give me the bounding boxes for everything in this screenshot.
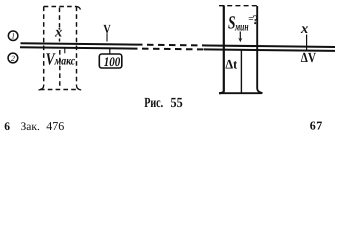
svg-text:ΔV: ΔV — [301, 51, 316, 66]
svg-text:мин: мин — [234, 19, 248, 33]
svg-text:Зак.: Зак. — [21, 121, 40, 133]
svg-text:55: 55 — [171, 96, 183, 111]
svg-text:V: V — [103, 22, 111, 36]
svg-text:476: 476 — [46, 119, 64, 133]
svg-text:Δt: Δt — [225, 57, 237, 72]
svg-text:67: 67 — [310, 119, 323, 133]
svg-text:?: ? — [252, 12, 259, 27]
svg-text:x: x — [300, 21, 308, 37]
svg-text:100: 100 — [104, 54, 121, 69]
svg-text:1: 1 — [11, 32, 15, 41]
svg-text:2: 2 — [11, 54, 15, 63]
svg-text:6: 6 — [4, 121, 10, 133]
svg-text:x: x — [54, 24, 62, 40]
svg-text:Рис.: Рис. — [144, 96, 163, 111]
svg-text:макс: макс — [54, 54, 76, 68]
